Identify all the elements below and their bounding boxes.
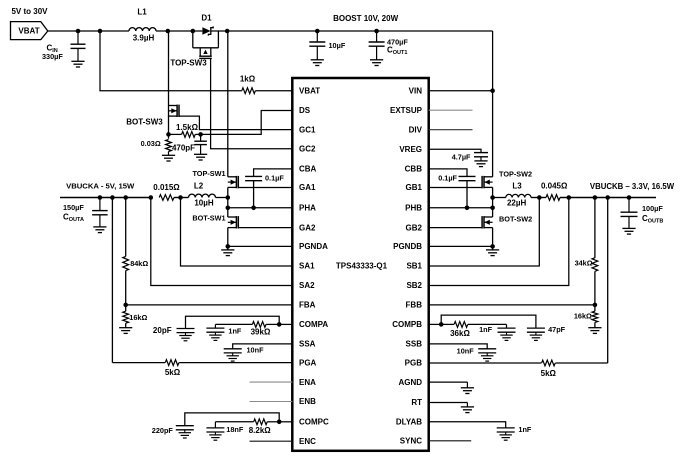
svg-text:CBA: CBA (299, 165, 317, 174)
ground AGND (461, 382, 474, 393)
wire SSB (429, 344, 488, 349)
wire EXTSUP stub (429, 109, 473, 111)
resistor 8.2kΩ (215, 419, 279, 425)
wire PGNDA (228, 245, 292, 247)
svg-text:16kΩ: 16kΩ (129, 313, 147, 322)
svg-text:RT: RT (411, 398, 422, 407)
node junction boost output (191, 29, 196, 34)
label 470µF (387, 37, 408, 46)
label 4.7µF (452, 152, 471, 161)
svg-text:COMPC: COMPC (299, 418, 329, 427)
node VBAT input flag (11, 22, 48, 40)
svg-text:VBAT: VBAT (299, 86, 320, 95)
wire ENA stub (250, 381, 293, 383)
node junction COUTB (627, 195, 632, 200)
ground CIN (71, 61, 84, 67)
label 36kΩ (450, 329, 470, 338)
svg-text:1kΩ: 1kΩ (240, 75, 256, 84)
svg-text:BOT-SW3: BOT-SW3 (126, 117, 163, 126)
op-amp U1 TPS43333-Q1 body (292, 78, 428, 451)
node junction PGB tap (605, 195, 610, 200)
capacitor 10nF SSA (224, 349, 242, 361)
label L2 (194, 181, 204, 190)
capacitor 10µF (309, 31, 325, 60)
wire boost rail (227, 30, 492, 32)
wire PGNDB (429, 245, 493, 247)
wire CBB (429, 169, 467, 177)
svg-text:ENC: ENC (299, 437, 316, 446)
label 1nF COMPB (479, 325, 493, 334)
wire boost rail to VIN (492, 31, 494, 91)
svg-text:ENA: ENA (299, 378, 316, 387)
ground 470pF (194, 154, 207, 160)
transistor Q BOT-SW3 (169, 105, 180, 135)
label BOOST 10V 20W (333, 14, 399, 23)
node junction 0.03 sense (166, 132, 171, 137)
wire TOP-SW3 gate to GC2 (211, 58, 293, 148)
wire boost to TOP-SW1 drain (227, 31, 229, 177)
ground COUTB (622, 228, 635, 234)
svg-text:TOP-SW1: TOP-SW1 (192, 169, 225, 178)
wire GB2 (429, 227, 482, 229)
wire VBAT tap down (100, 31, 242, 91)
wire SA2 (151, 198, 292, 286)
capacitor CBB 0.1µF (459, 176, 476, 207)
svg-text:DS: DS (299, 106, 311, 115)
label VBUCKA (66, 182, 135, 191)
inductor L1 (129, 28, 156, 31)
wire CIN to L1 (78, 30, 129, 32)
label 18nF (226, 425, 244, 434)
label COUTA (63, 213, 84, 224)
svg-text:AGND: AGND (398, 378, 422, 387)
svg-text:47pF: 47pF (548, 325, 566, 334)
label COUT1 (387, 46, 407, 57)
wire RT (429, 402, 468, 404)
svg-text:84kΩ: 84kΩ (130, 259, 148, 268)
inductor L3 (506, 194, 531, 197)
node junction PGA tap (110, 195, 115, 200)
svg-text:GA2: GA2 (299, 223, 316, 232)
wire COMPB (429, 323, 442, 325)
svg-text:SSA: SSA (299, 340, 316, 349)
svg-text:VIN: VIN (409, 86, 423, 95)
svg-text:D1: D1 (201, 14, 212, 23)
node junction COUT1 (374, 29, 379, 34)
svg-text:CBB: CBB (405, 165, 423, 174)
capacitor CBA 0.1µF (245, 176, 262, 207)
wire phase B (492, 187, 494, 217)
svg-text:330µF: 330µF (42, 52, 63, 61)
label 84kΩ (130, 259, 148, 268)
node junction COMPA (277, 322, 282, 327)
wire SW node down (168, 31, 170, 106)
svg-text:0.1µF: 0.1µF (438, 174, 457, 183)
svg-text:1nF: 1nF (518, 425, 532, 434)
svg-text:3.9µH: 3.9µH (133, 33, 155, 42)
wire AGND (429, 381, 468, 383)
node junction 10µF (315, 29, 320, 34)
svg-text:8.2kΩ: 8.2kΩ (249, 426, 272, 435)
resistor 0.015Ω (159, 195, 174, 201)
ground 16kΩ B (588, 328, 601, 334)
capacitor COUT1 470µF (369, 31, 385, 60)
svg-text:1nF: 1nF (228, 327, 242, 336)
svg-text:36kΩ: 36kΩ (450, 329, 470, 338)
label L1 (137, 8, 147, 17)
wire FBB (429, 304, 595, 306)
transistor Q BOT-SW1 (228, 216, 239, 228)
node junction VBAT sense tap (98, 29, 103, 34)
wire BOT-SW1 source (227, 228, 229, 250)
svg-text:FBB: FBB (406, 301, 423, 310)
svg-text:10µF: 10µF (329, 41, 346, 50)
node junction divider A tap (123, 195, 128, 200)
node junction PGNDB (490, 244, 495, 249)
wire VBUCKB rail (560, 197, 656, 199)
label 10nF SSA (247, 346, 265, 355)
label BOT-SW1 (192, 214, 225, 223)
node junction phase A PHA (226, 206, 231, 211)
wire GA2 (238, 227, 292, 229)
svg-text:COMPB: COMPB (392, 320, 422, 329)
svg-text:0.03Ω: 0.03Ω (141, 139, 161, 148)
svg-text:TPS43333-Q1: TPS43333-Q1 (336, 262, 388, 271)
ground 16kΩ A (119, 328, 132, 334)
label CIN (47, 44, 58, 55)
wire SB1 (429, 198, 540, 267)
diode D1 anode wire (193, 30, 203, 32)
resistor 1.5kΩ (169, 132, 201, 138)
svg-text:L3: L3 (512, 182, 522, 191)
wire SSA (233, 344, 293, 349)
svg-text:PGNDA: PGNDA (299, 242, 328, 251)
svg-text:34kΩ: 34kΩ (575, 258, 593, 267)
svg-text:TOP-SW2: TOP-SW2 (499, 169, 532, 178)
wire ENB stub (250, 401, 293, 403)
label 5kΩ B (541, 369, 557, 378)
resistor 0.045Ω (546, 195, 560, 201)
svg-text:10µH: 10µH (194, 198, 214, 207)
label TOP-SW1 (192, 169, 225, 178)
wire 0.015 to L2 (174, 197, 189, 199)
ground BOT-SW2 (486, 250, 499, 256)
node junction COMPB (439, 322, 444, 327)
wire DS route (201, 111, 293, 135)
label L3 (512, 182, 522, 191)
node junction phase A L2 (226, 195, 231, 200)
svg-text:TOP-SW3: TOP-SW3 (170, 58, 207, 67)
wire PHA (228, 207, 292, 209)
svg-text:18nF: 18nF (226, 425, 244, 434)
node junction SW boost (166, 29, 171, 34)
svg-text:100µF: 100µF (642, 204, 663, 213)
capacitor 20pF (177, 329, 195, 341)
svg-text:GB2: GB2 (406, 223, 423, 232)
transistor Q TOP-SW3 (193, 31, 219, 58)
op-amp U1 pin labels (299, 86, 423, 446)
transistor Q TOP-SW1 (228, 176, 239, 188)
label TOP-SW3 (170, 58, 207, 67)
capacitor 1nF COMPA (206, 324, 224, 340)
wire 1kΩ to VBAT pin (255, 90, 292, 92)
svg-text:DIV: DIV (409, 125, 423, 134)
capacitor 10nF SSB (478, 349, 496, 361)
label 150µF (63, 203, 84, 212)
svg-text:1.5kΩ: 1.5kΩ (176, 123, 199, 132)
wire COMPC (279, 421, 292, 423)
svg-text:0.015Ω: 0.015Ω (153, 183, 180, 192)
node junction SA2 tap (149, 195, 154, 200)
label 16kΩ A (129, 313, 147, 322)
svg-text:GA1: GA1 (299, 183, 316, 192)
svg-text:SSB: SSB (406, 340, 423, 349)
node junction CBB cap bottom (465, 206, 470, 211)
ground COUT1 (370, 60, 383, 66)
svg-text:BOOST 10V, 20W: BOOST 10V, 20W (333, 14, 399, 23)
wire COMPC loop to 220pF (185, 413, 279, 426)
node junction 470pF (198, 132, 203, 137)
wire L3 to sense (531, 197, 546, 199)
wire L2 to phase A (216, 197, 228, 199)
wire VIN to TOP-SW2 drain (492, 91, 494, 177)
wire GB1 (429, 187, 482, 189)
svg-text:470pF: 470pF (172, 144, 195, 153)
ground 4.7µF (474, 161, 487, 167)
svg-text:FBA: FBA (299, 301, 316, 310)
label 0.045Ω (541, 181, 568, 190)
node junction FBA divider (123, 303, 128, 308)
wire COMPA (279, 323, 292, 325)
svg-text:4.7µF: 4.7µF (452, 152, 471, 161)
label 1kΩ (240, 75, 256, 84)
capacitor 1nF DLYAB (497, 428, 515, 440)
label L1 value 3.9µH (133, 33, 155, 42)
wire VBUCKA rail (60, 197, 151, 199)
wire FBA (126, 304, 293, 306)
svg-text:5V to 30V: 5V to 30V (11, 7, 48, 16)
svg-text:VBUCKA - 5V, 15W: VBUCKA - 5V, 15W (66, 182, 135, 191)
wire ENC stub (250, 440, 293, 442)
wire PGA (112, 362, 165, 364)
node junction PGNDA (226, 244, 231, 249)
label 8.2kΩ (249, 426, 272, 435)
label 0.015Ω (153, 183, 180, 192)
label 20pF (153, 326, 172, 335)
label 47pF (548, 325, 566, 334)
svg-text:BOT-SW2: BOT-SW2 (499, 214, 532, 223)
resistor 16kΩ B (592, 305, 598, 328)
wire COMPB loop to 47pF (441, 315, 536, 328)
resistor 39kΩ (215, 322, 279, 328)
svg-text:0.045Ω: 0.045Ω (541, 181, 568, 190)
label 34kΩ (575, 258, 593, 267)
wire GA1 (238, 187, 292, 189)
resistor 5kΩ A (165, 360, 179, 366)
svg-text:EXTSUP: EXTSUP (390, 106, 423, 115)
svg-text:SB1: SB1 (406, 262, 422, 271)
wire SB2 (429, 198, 569, 286)
label 470pF (172, 144, 195, 153)
label 16kΩ B (574, 312, 592, 321)
node junction COMPC (277, 420, 282, 425)
capacitor COUTB 100µF (621, 198, 638, 229)
ground BOT-SW1 (221, 250, 234, 256)
wire phase A (227, 187, 229, 217)
label 5kΩ A (165, 368, 181, 377)
wire 5kΩ to PGA pin (179, 362, 292, 364)
inductor L2 (189, 194, 216, 197)
svg-text:5kΩ: 5kΩ (541, 369, 557, 378)
wire CBA (254, 169, 293, 177)
ground RT (461, 403, 474, 413)
wire SA1 (181, 198, 293, 267)
label L3 value 22µH (507, 199, 527, 208)
svg-text:VREG: VREG (399, 145, 422, 154)
label D1 (201, 14, 212, 23)
svg-text:COMPA: COMPA (299, 320, 328, 329)
label 10µF (329, 41, 346, 50)
resistor 34kΩ (592, 198, 598, 305)
svg-text:DLYAB: DLYAB (396, 418, 422, 427)
svg-text:10nF: 10nF (457, 347, 475, 356)
node junction boost output right (225, 29, 230, 34)
node junction CBA cap bottom (251, 206, 256, 211)
capacitor 1nF COMPB (498, 324, 516, 340)
label 0.03Ω (141, 139, 161, 148)
capacitor 18nF (206, 422, 224, 440)
capacitor COUTA 150µF (92, 198, 108, 227)
wire VREG (429, 149, 481, 152)
node junction SB2 tap (567, 195, 572, 200)
label CIN value 330µF (42, 52, 63, 61)
wire PGB (429, 362, 542, 364)
label 39kΩ (251, 327, 271, 336)
node junction divider B tap (593, 195, 598, 200)
svg-text:PGNDB: PGNDB (393, 242, 422, 251)
svg-text:L1: L1 (137, 8, 147, 17)
resistor 36kΩ (441, 322, 506, 328)
svg-text:39kΩ: 39kΩ (251, 327, 271, 336)
wire PHB (429, 207, 493, 209)
transistor Q TOP-SW2 (482, 176, 493, 188)
node VBAT input label 5V to 30V (11, 7, 48, 16)
svg-text:SB2: SB2 (406, 281, 422, 290)
svg-text:20pF: 20pF (153, 326, 172, 335)
wire COMPA loop to 20pF (186, 316, 280, 328)
svg-text:PGA: PGA (299, 358, 317, 367)
label TOP-SW2 (499, 169, 532, 178)
label 100µF (642, 204, 663, 213)
svg-text:GC1: GC1 (299, 125, 316, 134)
svg-text:SYNC: SYNC (400, 437, 422, 446)
svg-text:ENB: ENB (299, 397, 316, 406)
node junction phase B L3 (490, 195, 495, 200)
svg-text:PHB: PHB (405, 204, 422, 213)
wire D1 cathode to node (211, 30, 227, 32)
node junction phase B PHB (490, 206, 495, 211)
capacitor 4.7µF (474, 153, 488, 161)
label 0.1µF right (438, 174, 457, 183)
wire DIV stub (429, 129, 473, 131)
svg-text:SA1: SA1 (299, 262, 315, 271)
capacitor 470pF (194, 134, 207, 154)
node junction FBB divider (593, 303, 598, 308)
svg-text:GB1: GB1 (406, 183, 423, 192)
label 10nF SSB (457, 347, 475, 356)
svg-text:10nF: 10nF (247, 346, 265, 355)
node junction SB1 tap (537, 195, 542, 200)
diode D1 (202, 26, 213, 35)
label 1nF DLYAB (518, 425, 532, 434)
wire DLYAB (429, 422, 506, 428)
svg-text:L2: L2 (194, 181, 204, 190)
wire PGA tap down (111, 198, 113, 363)
wire VBAT flag to CIN (48, 30, 78, 32)
label BOT-SW2 (499, 214, 532, 223)
wire phase B to L3 (493, 197, 506, 199)
svg-text:16kΩ: 16kΩ (574, 312, 592, 321)
svg-text:150µF: 150µF (63, 203, 84, 212)
svg-text:PHA: PHA (299, 204, 316, 213)
node junction VIN (490, 88, 495, 93)
wire VIN pin (429, 90, 493, 92)
capacitor 47pF (527, 328, 545, 340)
wire BOT-SW3 gate to GC1 (179, 116, 292, 130)
svg-text:5kΩ: 5kΩ (165, 368, 181, 377)
wire PGB tap down (607, 198, 609, 364)
label VBUCKB (590, 182, 675, 191)
svg-text:1nF: 1nF (479, 325, 493, 334)
ground 0.03Ω (162, 155, 175, 161)
node junction COUTA (98, 195, 103, 200)
capacitor CIN (71, 31, 86, 61)
resistor 1kΩ (242, 88, 256, 94)
svg-text:VBAT: VBAT (18, 26, 39, 35)
label 0.1µF left (265, 174, 284, 183)
label 1.5kΩ (176, 123, 199, 132)
svg-text:22µH: 22µH (507, 199, 527, 208)
label 220pF (152, 426, 174, 435)
svg-text:VBUCKB – 3.3V, 16.5W: VBUCKB – 3.3V, 16.5W (590, 182, 675, 191)
label BOT-SW3 (126, 117, 163, 126)
svg-text:0.1µF: 0.1µF (265, 174, 284, 183)
node junction SA1 tap (178, 195, 183, 200)
label L2 value 10µH (194, 198, 214, 207)
label 1nF COMPA (228, 327, 242, 336)
wire 5kΩ B to rail (555, 362, 607, 364)
node junction CIN (76, 29, 81, 34)
capacitor 220pF (176, 426, 194, 438)
resistor 5kΩ B (542, 360, 556, 366)
svg-text:BOT-SW1: BOT-SW1 (192, 214, 225, 223)
svg-text:SA2: SA2 (299, 281, 315, 290)
resistor 84kΩ (123, 198, 129, 305)
ground 10µF (311, 60, 324, 66)
svg-text:PGB: PGB (405, 359, 423, 368)
resistor 16kΩ A (123, 305, 129, 328)
transistor Q BOT-SW2 (482, 216, 493, 228)
wire SYNC stub (429, 440, 472, 442)
wire L1 to SW node (156, 30, 193, 32)
ground COUTA (93, 227, 106, 233)
wire BOT-SW2 source (492, 228, 494, 250)
resistor 0.03Ω (166, 134, 172, 155)
svg-text:220pF: 220pF (152, 426, 174, 435)
svg-text:GC2: GC2 (299, 145, 316, 154)
label COUTB (642, 214, 663, 225)
